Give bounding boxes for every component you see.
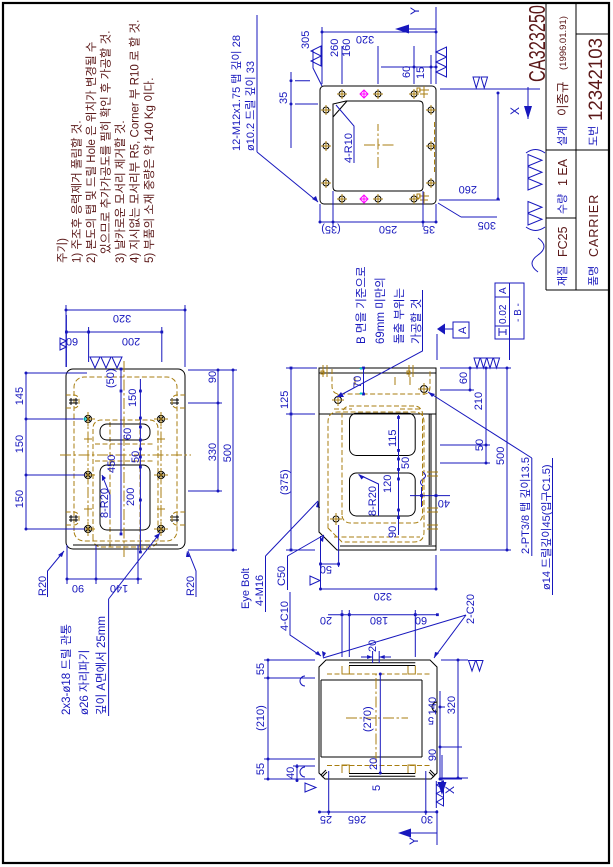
- finish single above left: [305, 783, 316, 792]
- notch semicircle bottom edge: [432, 702, 437, 712]
- counterbored holes 6x: [81, 412, 168, 536]
- svg-text:125: 125: [279, 391, 291, 409]
- svg-text:50: 50: [400, 457, 412, 469]
- svg-text:60: 60: [401, 66, 413, 78]
- bottom step lines: [429, 414, 431, 545]
- svg-text:25: 25: [320, 813, 332, 825]
- svg-text:260: 260: [459, 183, 477, 195]
- svg-text:ø10.2 드릴 깊이 33: ø10.2 드릴 깊이 33: [244, 61, 257, 151]
- dim 320 right vertical: [322, 27, 436, 84]
- cyan defpoints: [360, 367, 363, 395]
- dim (375) above view B: [286, 368, 317, 550]
- interior dim 450: [120, 369, 122, 534]
- X axis arrow below D: [441, 755, 443, 782]
- svg-text:재질: 재질: [556, 266, 569, 286]
- svg-text:35: 35: [423, 223, 435, 235]
- clamp symbol bottom-right edge: [417, 86, 429, 98]
- svg-text:15: 15: [415, 67, 427, 79]
- svg-text:FC25: FC25: [556, 226, 570, 257]
- general surface finish legend tilde: [532, 238, 544, 272]
- hidden slot line bottom edge: [434, 122, 436, 172]
- drill note underline: [108, 599, 110, 716]
- view C outer square: [320, 86, 436, 204]
- hidden verticals between slots: [95, 444, 155, 461]
- legend triangles 2: [528, 202, 542, 226]
- dim chain 60 200 right: [66, 327, 161, 362]
- eye bolt hidden tabs: [66, 395, 185, 525]
- hidden inset outline: [74, 377, 177, 541]
- pocket window left: [350, 473, 416, 516]
- svg-text:210: 210: [473, 392, 485, 410]
- dim 60 below right: [440, 368, 474, 390]
- right end inner line: [319, 372, 436, 374]
- svg-text:Y: Y: [408, 7, 422, 15]
- 12 tapped holes M12 left col: [337, 194, 419, 204]
- hidden band left: [327, 765, 430, 767]
- right inner lines: [349, 663, 415, 666]
- svg-text:35: 35: [278, 92, 290, 104]
- svg-text:X: X: [508, 107, 522, 115]
- svg-text:200: 200: [122, 335, 140, 347]
- dim 50 below: [440, 445, 490, 463]
- svg-text:돌출 부위는: 돌출 부위는: [393, 288, 406, 344]
- eye bolt top-right: [69, 398, 78, 405]
- magenta probe marker left: [360, 195, 368, 203]
- slot pocket left: [100, 465, 150, 530]
- svg-text:150: 150: [127, 389, 139, 407]
- dim 20 small right: [361, 651, 391, 663]
- svg-text:90: 90: [387, 526, 399, 538]
- svg-text:69mm 미만의: 69mm 미만의: [374, 277, 387, 344]
- clamp symbol bottom-left edge: [417, 192, 429, 204]
- eye bolt bottom-left: [170, 515, 179, 522]
- svg-text:0.02: 0.02: [498, 304, 509, 324]
- centerline horizontal D: [375, 674, 377, 763]
- pocket window right: [350, 413, 416, 455]
- top edge ext line: [65, 315, 67, 367]
- clamp symbol right edge b: [407, 365, 413, 377]
- svg-text:265: 265: [348, 813, 366, 825]
- centerline hole row top: [87, 412, 89, 535]
- svg-text:40: 40: [438, 497, 450, 509]
- svg-text:320: 320: [113, 312, 131, 324]
- svg-text:2-PT3/8 탭 깊이13.5: 2-PT3/8 탭 깊이13.5: [519, 457, 532, 554]
- plate inner edge line: [73, 544, 178, 546]
- svg-text:450: 450: [106, 455, 118, 473]
- dim line below 320: [497, 93, 499, 199]
- dim left chain 90 140: [66, 545, 142, 584]
- dim ext lines right holes: [342, 46, 436, 84]
- view A outer plate: [66, 369, 185, 549]
- dim chain 115 50 120 90: [398, 415, 400, 535]
- finish marks on ext line: [436, 47, 447, 77]
- tapped hole top-left: [333, 516, 339, 522]
- svg-text:150: 150: [14, 435, 26, 453]
- centerline vertical D: [346, 717, 408, 719]
- svg-text:(270): (270): [362, 706, 374, 732]
- svg-text:115: 115: [387, 429, 399, 447]
- svg-text:60: 60: [66, 335, 78, 347]
- centerline vertical: [60, 454, 191, 456]
- svg-text:8-R20: 8-R20: [367, 486, 379, 516]
- dim chain below 330 90: [188, 370, 237, 491]
- hidden tabs right: [342, 666, 415, 674]
- svg-text:2x3-ø18 드릴 관통: 2x3-ø18 드릴 관통: [60, 624, 73, 715]
- dim 210 below: [440, 368, 490, 445]
- svg-text:12-M12x1.75 탭 깊이 28: 12-M12x1.75 탭 깊이 28: [230, 35, 243, 151]
- view D outline with chamfered right corners: [319, 660, 437, 779]
- dim chain right 20 180 60: [328, 610, 437, 657]
- svg-text:Eye Bolt: Eye Bolt: [240, 568, 252, 609]
- note underlines: [532, 458, 553, 595]
- svg-text:X: X: [443, 786, 457, 794]
- svg-text:2) 본도의 탭 및 드릴 Hole 은 위치가 변경될 수: 2) 본도의 탭 및 드릴 Hole 은 위치가 변경될 수: [84, 42, 98, 263]
- svg-text:260: 260: [329, 39, 341, 57]
- hidden tabs left: [342, 765, 415, 773]
- chamfer hatch marks: [321, 770, 435, 777]
- dim chain top 145 150 150: [26, 373, 87, 529]
- svg-text:305: 305: [300, 31, 312, 49]
- svg-text:55: 55: [255, 763, 267, 775]
- view C center mark: [364, 124, 394, 168]
- 12 tapped holes M12 bottom row: [426, 105, 436, 188]
- svg-text:이종규: 이종규: [556, 81, 570, 116]
- title block outline: [546, 3, 609, 290]
- svg-text:4-C10: 4-C10: [279, 601, 291, 631]
- ext line bottom right with finish marks: [440, 88, 540, 90]
- tapped hole top-right: [335, 397, 342, 404]
- svg-text:(35): (35): [321, 223, 341, 235]
- svg-text:20: 20: [320, 614, 332, 626]
- svg-text:60: 60: [415, 614, 427, 626]
- slot pocket right: [100, 424, 150, 440]
- svg-text:50: 50: [130, 451, 142, 463]
- Y axis arrow right of view C: [435, 7, 437, 43]
- svg-text:Y: Y: [407, 837, 421, 845]
- svg-text:250: 250: [379, 223, 397, 235]
- svg-text:5) 부품의 소재 중량은 약 140 Kg 이다.: 5) 부품의 소재 중량은 약 140 Kg 이다.: [142, 78, 156, 263]
- svg-text:(375): (375): [279, 469, 291, 495]
- breakline squiggle: [421, 472, 426, 486]
- dim chain left 25 265 30: [320, 771, 437, 815]
- svg-text:90: 90: [427, 749, 439, 761]
- small tap marks olive mid: [84, 435, 165, 513]
- finish marks triple below left: [436, 781, 443, 808]
- leader 4-R10: [336, 105, 354, 163]
- svg-text:R20: R20: [185, 576, 197, 596]
- svg-text:140: 140: [110, 582, 128, 594]
- svg-text:CARRIER: CARRIER: [587, 194, 601, 257]
- svg-text:12342103: 12342103: [586, 38, 607, 121]
- dim 500 below: [440, 368, 511, 550]
- dim 40: [293, 764, 315, 782]
- svg-text:60: 60: [458, 372, 470, 384]
- svg-text:(1996.01.91): (1996.01.91): [558, 16, 569, 70]
- svg-text:도번: 도번: [587, 126, 600, 146]
- svg-text:500: 500: [222, 444, 234, 462]
- svg-text:200: 200: [125, 488, 137, 506]
- svg-text:1 EA: 1 EA: [556, 158, 570, 186]
- svg-text:3) 날카로운 모서리 제거할 것.: 3) 날카로운 모서리 제거할 것.: [114, 120, 127, 263]
- left end inner line: [340, 545, 436, 547]
- clamp symbol right edge a: [321, 365, 327, 377]
- dim below 320: [440, 660, 468, 778]
- hidden inner lines: [334, 409, 420, 537]
- left inner lines: [349, 774, 415, 777]
- svg-text:품명: 품명: [587, 266, 600, 286]
- svg-text:330: 330: [207, 443, 219, 461]
- legend paren open: [526, 227, 545, 231]
- dim 70: [363, 368, 365, 394]
- B note underline leader: [337, 290, 423, 397]
- 12 tapped holes M12 top row: [321, 105, 331, 188]
- svg-text:ø26 자리파기: ø26 자리파기: [78, 650, 91, 715]
- svg-text:있으므로 추가가공도를 필히 확인 후 가공할 것.: 있으므로 추가가공도를 필히 확인 후 가공할 것.: [99, 31, 113, 254]
- svg-text:50: 50: [474, 439, 486, 451]
- dim line 270: [379, 674, 381, 773]
- finish marks triple right edge: [90, 357, 122, 368]
- svg-text:140: 140: [427, 697, 439, 715]
- single finish mark: [310, 576, 320, 585]
- svg-text:(50): (50): [105, 368, 117, 388]
- dim 320 right: [66, 305, 185, 367]
- tapped hole bottom-right: [421, 386, 428, 393]
- svg-text:주기): 주기): [56, 238, 69, 263]
- eye bolt top-left: [69, 515, 78, 522]
- corner finish callout 305 top right: [313, 50, 322, 86]
- 12 tapped holes M12 right col: [337, 89, 419, 99]
- view C pocket corner diagonal detail: [333, 101, 347, 117]
- hidden step line: [332, 369, 430, 394]
- svg-text:305: 305: [478, 219, 496, 231]
- svg-text:수량: 수량: [556, 194, 569, 214]
- ext line below left corner: [438, 200, 500, 217]
- X axis arrow near view C: [527, 87, 529, 119]
- hidden rib lines: [110, 420, 140, 547]
- finish marks four on ext: [474, 358, 500, 368]
- svg-text:- B -: - B -: [513, 303, 524, 322]
- dim below 140 90: [440, 691, 462, 779]
- svg-text:55: 55: [255, 663, 267, 675]
- note underline: [256, 15, 258, 152]
- pair finish marks on vertical ext: [473, 77, 488, 88]
- svg-text:50: 50: [320, 563, 332, 575]
- svg-text:4) 지시없는 모서리부 R5, Corner 부 R10: 4) 지시없는 모서리부 R5, Corner 부 R10 로 할 것.: [129, 20, 142, 263]
- central pocket rect: [321, 680, 422, 757]
- finish marks pair right of D: [469, 661, 484, 672]
- svg-text:320: 320: [374, 590, 392, 602]
- hidden pocket outer boundary: [328, 412, 424, 542]
- magenta probe marker right: [360, 90, 368, 98]
- svg-text:500: 500: [495, 447, 507, 465]
- jog arcs on ext lines: [300, 676, 305, 777]
- svg-text:150: 150: [14, 490, 26, 508]
- feature control frame: [495, 283, 524, 339]
- svg-text:A: A: [498, 287, 509, 294]
- svg-text:90: 90: [207, 371, 219, 383]
- FCF leader: [509, 339, 511, 360]
- interior chain line: [139, 379, 141, 553]
- svg-text:4-R10: 4-R10: [343, 133, 355, 163]
- svg-text:가공할 것: 가공할 것: [410, 298, 423, 344]
- svg-text:40: 40: [285, 767, 297, 779]
- title block divider col material/qty: [546, 217, 576, 219]
- svg-text:120: 120: [382, 475, 394, 493]
- Y axis arrow left of D: [404, 810, 437, 845]
- svg-text:C50: C50: [276, 566, 288, 586]
- svg-text:B 면을 기준으로: B 면을 기준으로: [355, 266, 368, 344]
- svg-text:320: 320: [356, 33, 374, 45]
- svg-text:180: 180: [370, 614, 388, 626]
- dim chain top 55 (210) 55: [264, 660, 315, 779]
- view B outline with chamfer: [319, 368, 436, 550]
- legend triangles 3: [528, 155, 542, 191]
- svg-text:5: 5: [371, 785, 383, 791]
- dim 35 top right: [291, 72, 318, 148]
- datum A flag: [436, 334, 438, 360]
- title block divider col qty/design: [546, 149, 609, 151]
- svg-text:CA323250: CA323250: [524, 5, 550, 82]
- eye bolt underline: [265, 556, 267, 612]
- dim below 500: [188, 370, 237, 550]
- svg-text:설계: 설계: [556, 126, 569, 146]
- finish marks on top edge ext: [60, 338, 66, 350]
- svg-text:20: 20: [368, 758, 380, 770]
- svg-text:ø14 드릴깊이45(입구C1.5): ø14 드릴깊이45(입구C1.5): [540, 464, 553, 590]
- cyan defpoint: [83, 417, 87, 421]
- svg-text:60: 60: [122, 428, 134, 440]
- centerline hole row bottom: [160, 412, 162, 535]
- svg-text:30: 30: [421, 813, 433, 825]
- dim 40 small: [410, 487, 450, 507]
- leader for drill note: [109, 533, 160, 599]
- centerline horizontal: [123, 361, 125, 557]
- eye bolt bottom-right: [170, 398, 179, 405]
- olive ticks right edge: [355, 377, 410, 385]
- step edge line: [319, 413, 436, 415]
- dim 320 left of B: [321, 555, 437, 590]
- svg-text:깊이 A면에서 25mm: 깊이 A면에서 25mm: [95, 616, 108, 715]
- svg-text:A: A: [457, 326, 469, 334]
- svg-text:90: 90: [72, 582, 84, 594]
- note leader: [257, 152, 318, 202]
- svg-text:4-M16: 4-M16: [254, 575, 266, 606]
- corner finish marks: [311, 46, 321, 66]
- hidden pocket boundary inner: [342, 406, 423, 523]
- chamfer dim 50: [321, 525, 339, 590]
- view C inner pocket with R10 corner: [333, 101, 423, 191]
- hidden pocket boundary: [93, 420, 158, 547]
- title block divider small cell row2: [576, 33, 609, 35]
- olive tabs on bottom step: [427, 472, 438, 529]
- svg-text:2-C20: 2-C20: [465, 594, 477, 624]
- svg-text:(210): (210): [255, 705, 267, 731]
- svg-text:145: 145: [14, 387, 26, 405]
- legend paren close: [526, 150, 545, 154]
- 2-PT leader: [428, 392, 532, 458]
- dim left chain 35/250/35: [320, 191, 436, 227]
- hidden band right: [327, 673, 430, 675]
- svg-text:1) 주조후 응력제거 풀림할 것.: 1) 주조후 응력제거 풀림할 것.: [71, 120, 84, 263]
- svg-text:160: 160: [341, 39, 353, 57]
- svg-text:320: 320: [446, 696, 458, 714]
- eye bolt leader: [266, 501, 319, 556]
